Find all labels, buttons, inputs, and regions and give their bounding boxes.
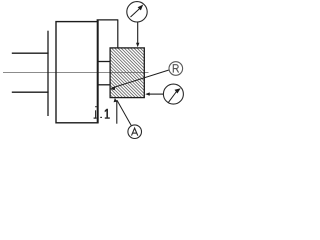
right dial indicator needle bbox=[168, 92, 176, 103]
right dial indicator circle bbox=[163, 84, 183, 104]
small mark dot bbox=[95, 106, 96, 107]
sleeve narrow rectangle right edge bbox=[117, 19, 119, 47]
small mark stem bbox=[95, 110, 96, 118]
support vertical line bbox=[47, 31, 49, 116]
top dial indicator needle bbox=[131, 8, 141, 17]
rotation symbol circled R bbox=[169, 62, 183, 76]
mandrel upper generator line bbox=[98, 61, 110, 63]
datum circle A bbox=[128, 125, 142, 139]
support lower arm bbox=[12, 91, 49, 93]
small mark tick bbox=[100, 117, 102, 118]
mandrel lower generator line bbox=[98, 84, 110, 86]
support upper arm bbox=[12, 52, 49, 54]
leader line to R symbol bbox=[112, 70, 169, 88]
part number 1 bbox=[105, 109, 110, 119]
housing right face (thick shared edge) bbox=[97, 20, 99, 123]
top dial indicator circle bbox=[127, 2, 147, 22]
workpiece hatched rectangle bbox=[110, 48, 144, 98]
small mark serif bbox=[94, 118, 97, 119]
datum leader vertical tail bbox=[116, 100, 118, 124]
right indicator stem bbox=[148, 93, 163, 95]
datum leader arrowhead bbox=[114, 98, 117, 102]
datum leader diagonal tail bbox=[117, 100, 131, 126]
sleeve narrow rectangle top bbox=[97, 19, 118, 21]
housing large rectangle bbox=[56, 22, 98, 123]
top indicator stem bbox=[137, 22, 139, 44]
centerline (axis) bbox=[3, 72, 149, 74]
